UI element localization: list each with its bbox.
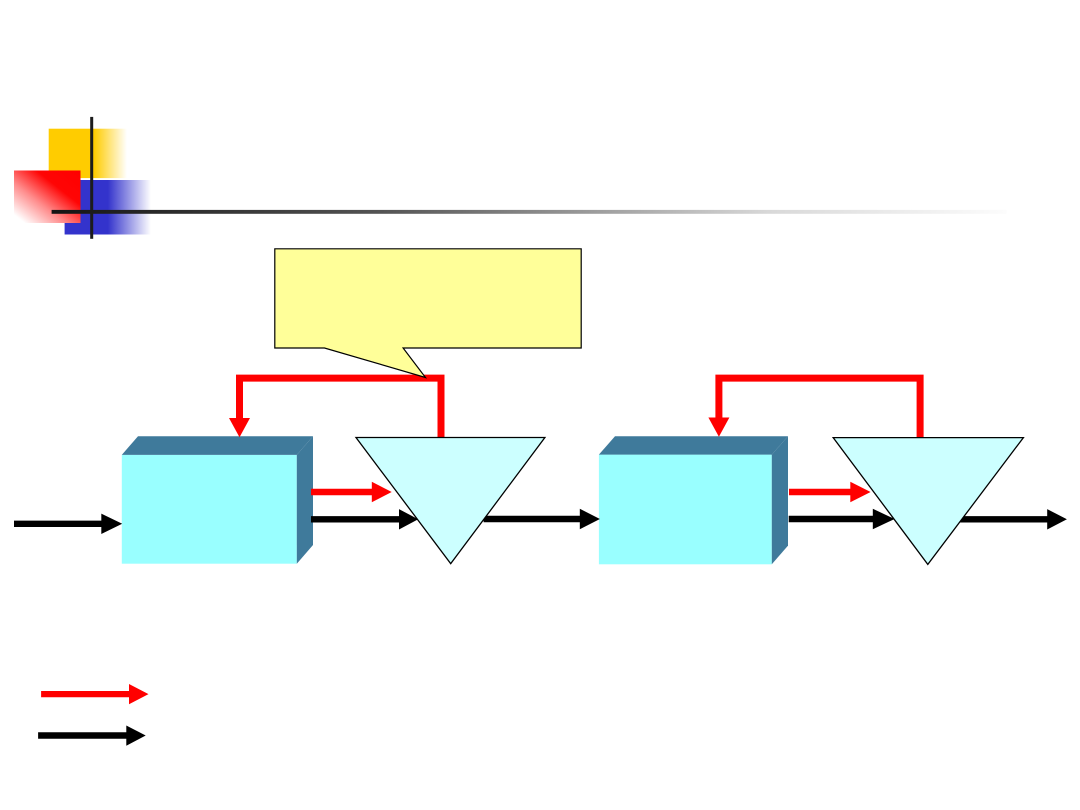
red feedback loop 2 [719,378,920,438]
box B2 top face [599,436,788,454]
red feedback loop 1 arrowhead [229,418,250,437]
summer triangle T1 [356,438,545,564]
black arrow summer1 to box2 [484,516,581,522]
decoration horizontal rule [52,210,1007,214]
legend black arrow [38,732,127,739]
box B1 top face [122,436,313,455]
box B1 front face [122,455,297,564]
box B1 side face [297,436,313,564]
red arrow box2 to summer2 [789,489,851,495]
box B2 side face [772,436,788,564]
decoration yellow square [49,129,127,178]
callout balloon [275,249,581,378]
black arrow box2 to summer2 [789,516,874,522]
red feedback loop 1 [240,378,442,437]
decoration red square [14,171,81,224]
decoration blue square [65,180,151,235]
summer triangle T2 [833,438,1023,565]
black arrow input to box1 [14,521,102,527]
black arrow summer2 to output [960,516,1048,522]
red feedback loop 2 arrowhead [708,418,729,437]
legend red arrow [41,691,130,697]
box B2 front face [599,455,772,565]
black arrow box1 to summer1 [311,516,400,522]
red arrow box1 to summer1 [311,489,373,495]
decoration vertical line [90,117,93,239]
